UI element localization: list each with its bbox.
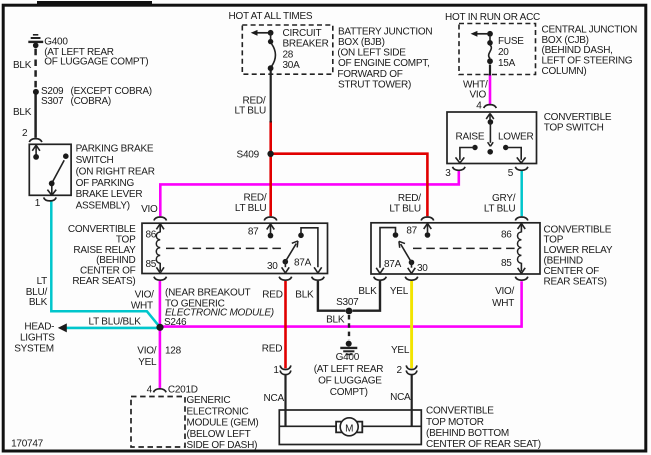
connector lower relay 86 bbox=[515, 217, 528, 221]
svg-text:(ON RIGHT REAR: (ON RIGHT REAR bbox=[76, 166, 155, 177]
svg-text:RED: RED bbox=[262, 289, 282, 300]
svg-text:SWITCH: SWITCH bbox=[76, 155, 114, 166]
svg-text:NCA: NCA bbox=[264, 393, 285, 404]
connector pin2 parking brake bbox=[29, 139, 42, 143]
connector raise relay 87 bbox=[264, 217, 277, 221]
svg-text:BLK: BLK bbox=[326, 315, 345, 326]
svg-text:RED/: RED/ bbox=[398, 193, 421, 204]
wire GRY/LT BLU switch pin5 to lower relay 86 bbox=[520, 171, 523, 216]
node S209/S307 bbox=[33, 89, 39, 95]
connector pin5 switch bbox=[515, 167, 528, 171]
fuse internals bbox=[471, 31, 493, 64]
svg-text:OF LUGGAGE: OF LUGGAGE bbox=[318, 375, 382, 386]
svg-text:CENTER OF: CENTER OF bbox=[80, 266, 136, 277]
GEM dashed box bbox=[131, 397, 185, 448]
svg-text:(BEHIND: (BEHIND bbox=[96, 255, 135, 266]
inline connector motor pin2 bbox=[406, 365, 417, 374]
svg-text:1: 1 bbox=[35, 198, 41, 209]
node S409 bbox=[267, 151, 273, 157]
svg-text:VIO: VIO bbox=[141, 204, 158, 215]
connector lower relay 87A bbox=[374, 277, 387, 281]
svg-text:(COBRA): (COBRA) bbox=[71, 96, 111, 107]
svg-text:OF ENGINE COMPT,: OF ENGINE COMPT, bbox=[338, 58, 430, 69]
svg-text:WHT: WHT bbox=[131, 300, 153, 311]
svg-text:BRAKE LEVER: BRAKE LEVER bbox=[76, 189, 143, 200]
svg-text:VIO/: VIO/ bbox=[137, 346, 156, 357]
coil raise bbox=[156, 232, 160, 263]
svg-text:BATTERY JUNCTION: BATTERY JUNCTION bbox=[338, 27, 432, 38]
svg-text:15A: 15A bbox=[498, 58, 516, 69]
node S307 bbox=[346, 308, 353, 315]
svg-text:S307: S307 bbox=[41, 96, 64, 107]
wire BLK below fuse bbox=[489, 65, 491, 76]
svg-text:LOWER RELAY: LOWER RELAY bbox=[544, 245, 613, 256]
svg-text:GENERIC: GENERIC bbox=[187, 395, 231, 406]
wire YEL lower relay 30 to motor pin2 bbox=[410, 281, 413, 368]
svg-text:LEFT OF STEERING: LEFT OF STEERING bbox=[542, 56, 633, 67]
convertible top switch box bbox=[447, 112, 537, 164]
inline connector motor pin1 bbox=[280, 365, 291, 374]
svg-text:TOP: TOP bbox=[116, 234, 136, 245]
svg-text:87A: 87A bbox=[384, 259, 402, 270]
circuit breaker dashed box bbox=[242, 25, 332, 74]
svg-text:RAISE: RAISE bbox=[456, 132, 485, 143]
convertible top motor box bbox=[279, 410, 421, 445]
svg-text:2: 2 bbox=[22, 128, 28, 139]
pin 87 terminal bbox=[267, 224, 275, 230]
svg-text:CIRCUIT: CIRCUIT bbox=[283, 28, 322, 39]
wire BLK below circuit breaker bbox=[270, 70, 272, 123]
connector pin4 switch bbox=[484, 105, 497, 109]
svg-text:OF LUGGAGE COMPT): OF LUGGAGE COMPT) bbox=[44, 56, 148, 67]
wire VIO/YEL S246 to GEM pin4 bbox=[159, 328, 162, 389]
motor M symbol bbox=[336, 418, 362, 436]
svg-text:CONVERTIBLE: CONVERTIBLE bbox=[544, 112, 612, 123]
svg-text:3: 3 bbox=[445, 168, 451, 179]
parking brake switch box bbox=[29, 144, 71, 195]
svg-text:REAR SEATS): REAR SEATS) bbox=[544, 276, 607, 287]
wire LT BLU/BLK S246 to headlights arrow bbox=[65, 327, 158, 330]
ground G400 bottom bbox=[340, 341, 357, 355]
wire BLK G400 to S209 (dashed) bbox=[34, 49, 37, 89]
connector lower relay 85 bbox=[515, 277, 528, 281]
svg-text:C201D: C201D bbox=[168, 384, 198, 395]
wire motor right lead bbox=[362, 425, 421, 427]
wire WHT/VIO fuse to switch pin4 bbox=[489, 75, 492, 105]
svg-text:87: 87 bbox=[248, 227, 259, 238]
svg-text:BLK: BLK bbox=[295, 289, 314, 300]
connector raise relay 30 bbox=[279, 277, 292, 281]
svg-text:2: 2 bbox=[396, 365, 402, 376]
svg-text:86: 86 bbox=[146, 229, 157, 240]
svg-text:STRUT TOWER): STRUT TOWER) bbox=[338, 79, 411, 90]
svg-text:BREAKER: BREAKER bbox=[283, 39, 329, 50]
svg-text:ELECTRONIC: ELECTRONIC bbox=[187, 406, 249, 417]
wire VIO switch pin3 to raise relay 86 bbox=[160, 171, 459, 216]
svg-text:30: 30 bbox=[267, 261, 278, 272]
parking brake internals bbox=[32, 145, 68, 195]
svg-text:BLK: BLK bbox=[13, 107, 32, 118]
wire LT BLU/BLK parking brake pin1 to S246 bbox=[51, 202, 159, 327]
svg-text:30A: 30A bbox=[283, 60, 301, 71]
svg-text:TOP SWITCH: TOP SWITCH bbox=[544, 122, 604, 133]
connector lower relay 87 bbox=[421, 217, 434, 221]
svg-text:FUSE: FUSE bbox=[498, 36, 524, 47]
wire RED raise relay 30 to motor pin1 bbox=[284, 281, 287, 368]
svg-text:87A: 87A bbox=[294, 257, 312, 268]
svg-text:30: 30 bbox=[417, 263, 428, 274]
coil lower bbox=[518, 223, 526, 229]
svg-text:PARKING BRAKE: PARKING BRAKE bbox=[76, 143, 154, 154]
connector pin1 parking brake bbox=[44, 197, 57, 201]
svg-text:NCA: NCA bbox=[390, 392, 411, 403]
svg-text:BOX (CJB): BOX (CJB) bbox=[542, 35, 589, 46]
fixed contact 87A bbox=[298, 233, 304, 239]
svg-text:5: 5 bbox=[508, 168, 514, 179]
svg-text:ASSEMBLY): ASSEMBLY) bbox=[76, 201, 130, 212]
dashed divider lower bbox=[413, 247, 517, 249]
svg-text:SIDE OF DASH): SIDE OF DASH) bbox=[187, 440, 258, 451]
raise relay internals bbox=[156, 224, 321, 273]
svg-text:4: 4 bbox=[476, 100, 482, 111]
svg-text:HOT IN RUN OR ACC: HOT IN RUN OR ACC bbox=[445, 12, 540, 23]
svg-text:1: 1 bbox=[273, 365, 279, 376]
svg-text:COLUMN): COLUMN) bbox=[542, 66, 587, 77]
circuit breaker internals bbox=[251, 30, 276, 71]
svg-text:S307: S307 bbox=[336, 297, 359, 308]
wire RED/LT BLU circuit breaker to raise relay 87 bbox=[269, 121, 272, 216]
svg-text:CENTRAL JUNCTION: CENTRAL JUNCTION bbox=[542, 24, 638, 35]
svg-text:CENTER OF: CENTER OF bbox=[544, 266, 600, 277]
svg-text:CENTER OF REAR SEAT): CENTER OF REAR SEAT) bbox=[426, 439, 541, 450]
svg-text:YEL: YEL bbox=[138, 357, 157, 368]
svg-text:LT BLU: LT BLU bbox=[235, 203, 267, 214]
wire VIO/WHT raise relay 85 to S246 bbox=[159, 281, 162, 326]
wire BLK motor pin1 lead bbox=[284, 375, 286, 427]
svg-text:VIO/: VIO/ bbox=[495, 286, 514, 297]
svg-text:(AT LEFT REAR: (AT LEFT REAR bbox=[314, 364, 384, 375]
node S246 bbox=[156, 324, 163, 331]
svg-text:RED: RED bbox=[262, 344, 282, 355]
connector lower relay 30 bbox=[405, 277, 418, 281]
svg-text:85: 85 bbox=[146, 259, 157, 270]
svg-text:(BEHIND: (BEHIND bbox=[544, 256, 583, 267]
wire VIO/WHT S246 to lower relay 85 bbox=[160, 281, 522, 326]
svg-text:FORWARD OF: FORWARD OF bbox=[337, 69, 402, 80]
svg-text:4: 4 bbox=[147, 384, 153, 395]
wire RED/LT BLU S409 to lower relay 87 bbox=[270, 154, 428, 217]
svg-text:CONVERTIBLE: CONVERTIBLE bbox=[426, 406, 494, 417]
svg-text:170747: 170747 bbox=[11, 438, 44, 449]
svg-text:TOP: TOP bbox=[544, 235, 564, 246]
svg-text:S409: S409 bbox=[237, 150, 260, 161]
wire BLK lower relay 87A to S307 bbox=[353, 281, 381, 311]
svg-text:(ON LEFT SIDE: (ON LEFT SIDE bbox=[337, 48, 406, 59]
svg-text:YEL: YEL bbox=[391, 345, 410, 356]
svg-text:(BELOW LEFT: (BELOW LEFT bbox=[187, 429, 251, 440]
wire BLK S307 to G400 (dashed) bbox=[348, 315, 350, 340]
svg-text:(BEHIND BOTTOM: (BEHIND BOTTOM bbox=[426, 428, 509, 439]
lower relay internals bbox=[376, 223, 525, 273]
svg-text:M: M bbox=[345, 423, 353, 434]
svg-text:COMPT): COMPT) bbox=[330, 387, 368, 398]
svg-text:CONVERTIBLE: CONVERTIBLE bbox=[68, 224, 136, 235]
svg-text:(NEAR BREAKOUT: (NEAR BREAKOUT bbox=[165, 287, 251, 298]
svg-text:SYSTEM: SYSTEM bbox=[14, 343, 54, 354]
connector pin3 switch bbox=[453, 167, 466, 171]
dashed divider raise bbox=[166, 247, 284, 249]
svg-text:86: 86 bbox=[501, 229, 512, 240]
svg-text:OF PARKING: OF PARKING bbox=[76, 178, 135, 189]
connector raise relay 86 bbox=[154, 217, 167, 221]
svg-text:HOT AT ALL TIMES: HOT AT ALL TIMES bbox=[229, 11, 313, 22]
wire motor left lead bbox=[280, 425, 336, 427]
ground G400 top bbox=[28, 35, 43, 48]
svg-text:REAR SEATS): REAR SEATS) bbox=[72, 276, 135, 287]
svg-text:20: 20 bbox=[498, 47, 509, 58]
svg-text:85: 85 bbox=[501, 258, 512, 269]
svg-text:VIO: VIO bbox=[470, 89, 487, 100]
svg-text:HEAD-: HEAD- bbox=[24, 322, 54, 333]
switch internals bbox=[456, 113, 526, 163]
wire BLK S209 to parking brake pin2 bbox=[34, 95, 37, 138]
convertible top lower relay box bbox=[371, 223, 540, 274]
svg-text:87: 87 bbox=[406, 225, 417, 236]
svg-text:LT BLU: LT BLU bbox=[484, 204, 516, 215]
svg-text:BOX (BJB): BOX (BJB) bbox=[338, 37, 385, 48]
headlights arrowhead bbox=[58, 323, 67, 332]
svg-text:28: 28 bbox=[283, 49, 294, 60]
fuse dashed box bbox=[459, 24, 536, 75]
svg-text:TOP MOTOR: TOP MOTOR bbox=[426, 417, 484, 428]
svg-text:LT BLU: LT BLU bbox=[235, 106, 267, 117]
svg-text:MODULE (GEM): MODULE (GEM) bbox=[187, 418, 259, 429]
svg-text:LT BLU/BLK: LT BLU/BLK bbox=[89, 316, 142, 327]
svg-text:128: 128 bbox=[165, 346, 182, 357]
svg-text:LT: LT bbox=[37, 276, 48, 287]
svg-text:LOWER: LOWER bbox=[498, 132, 533, 143]
svg-text:RAISE RELAY: RAISE RELAY bbox=[73, 245, 136, 256]
svg-text:LIGHTS: LIGHTS bbox=[20, 332, 55, 343]
svg-text:LT BLU: LT BLU bbox=[389, 204, 421, 215]
svg-text:YEL: YEL bbox=[390, 286, 409, 297]
wire BLK motor pin2 lead bbox=[411, 375, 413, 427]
wire BLK raise relay 87A to S307 bbox=[318, 281, 346, 311]
connector C201D GEM pin4 bbox=[154, 389, 167, 393]
svg-text:CONVERTIBLE: CONVERTIBLE bbox=[544, 224, 612, 235]
moving contact 30 bbox=[283, 259, 289, 265]
svg-text:BLK: BLK bbox=[358, 286, 377, 297]
svg-text:(BEHIND DASH,: (BEHIND DASH, bbox=[542, 45, 613, 56]
svg-text:BLK: BLK bbox=[13, 60, 32, 71]
convertible top raise relay box bbox=[142, 223, 328, 273]
connector raise relay 85 bbox=[154, 277, 167, 281]
connector raise relay 87A bbox=[312, 277, 325, 281]
svg-text:VIO/: VIO/ bbox=[135, 289, 154, 300]
svg-text:BLK: BLK bbox=[29, 297, 48, 308]
svg-text:WHT: WHT bbox=[492, 298, 514, 309]
svg-text:GRY/: GRY/ bbox=[492, 193, 516, 204]
